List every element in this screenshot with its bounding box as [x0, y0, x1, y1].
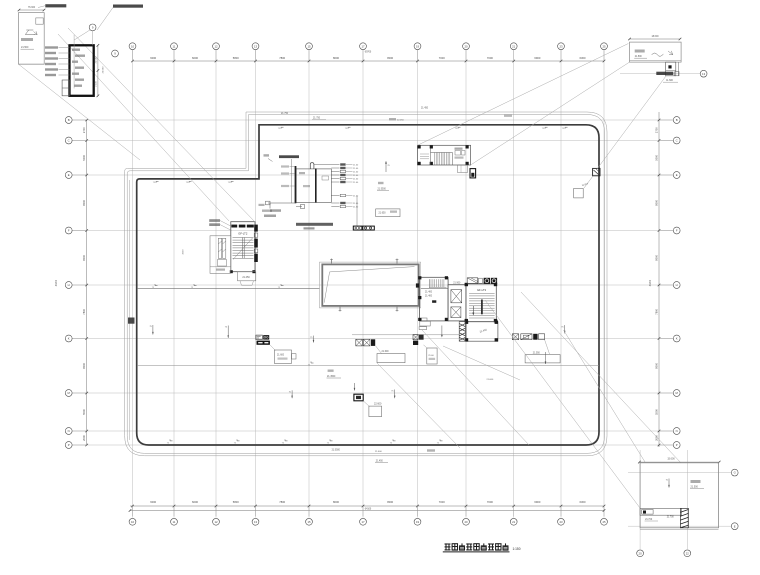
- svg-text:8000: 8000: [333, 56, 339, 60]
- bottom grid bubbles: [129, 518, 607, 525]
- svg-text:21.400: 21.400: [425, 292, 433, 294]
- svg-text:5000: 5000: [654, 154, 658, 160]
- svg-text:13: 13: [254, 44, 258, 48]
- svg-text:21.600: 21.600: [277, 355, 285, 357]
- svg-text:75: 75: [186, 182, 188, 184]
- svg-text:K: K: [676, 337, 678, 341]
- svg-text:21.60: 21.60: [353, 179, 359, 181]
- svg-text:E: E: [68, 173, 70, 177]
- column grid lines: [72, 50, 731, 549]
- svg-text:C: C: [676, 139, 678, 143]
- svg-text:13: 13: [254, 520, 258, 524]
- svg-text:25: 25: [602, 520, 606, 524]
- svg-text:5000: 5000: [82, 154, 86, 160]
- svg-text:6000: 6000: [150, 56, 156, 60]
- leader diagonals: [19, 28, 682, 508]
- svg-text:75: 75: [228, 182, 230, 184]
- svg-text:21.60: 21.60: [353, 165, 359, 167]
- svg-text:21.60: 21.60: [353, 175, 359, 177]
- gutter line mid: [352, 334, 459, 336]
- svg-text:21.60: 21.60: [353, 172, 359, 174]
- svg-text:75: 75: [390, 443, 392, 445]
- svg-text:7800: 7800: [654, 308, 658, 314]
- svg-text:4000: 4000: [183, 249, 185, 255]
- svg-text:21.450: 21.450: [242, 276, 250, 279]
- svg-text:8000: 8000: [654, 254, 658, 260]
- svg-text:8000: 8000: [654, 362, 658, 368]
- svg-text:B: B: [68, 118, 70, 122]
- hatched duct strip: [459, 322, 465, 342]
- svg-text:6900: 6900: [534, 500, 540, 504]
- stair core GF-LT2: [230, 222, 258, 274]
- svg-text:K: K: [68, 337, 70, 341]
- svg-text:21.700: 21.700: [667, 517, 675, 519]
- roof divide line upper: [137, 287, 448, 289]
- svg-text:20: 20: [639, 551, 643, 555]
- svg-text:21.60: 21.60: [353, 182, 359, 184]
- svg-text:6300: 6300: [580, 500, 586, 504]
- svg-text:H: H: [68, 283, 70, 287]
- svg-text:75: 75: [282, 443, 284, 445]
- svg-text:7800: 7800: [279, 56, 285, 60]
- svg-text:21.450: 21.450: [421, 108, 429, 110]
- hydrant group G2: [356, 339, 405, 362]
- svg-text:40200: 40200: [650, 279, 652, 286]
- svg-text:6900: 6900: [534, 56, 540, 60]
- top dimension line: [131, 50, 605, 62]
- svg-text:75: 75: [437, 443, 439, 445]
- svg-text:23: 23: [559, 44, 563, 48]
- booster pump boxes: [353, 226, 374, 230]
- svg-text:76.300: 76.300: [28, 7, 36, 9]
- TL detail: water tank room bold: [62, 45, 94, 96]
- svg-text:75: 75: [308, 365, 310, 367]
- TL leader labels: [45, 46, 70, 76]
- svg-text:6000: 6000: [150, 500, 156, 504]
- svg-text:21.60: 21.60: [353, 196, 359, 198]
- hydrant label box top: [376, 209, 400, 217]
- svg-text:75: 75: [455, 128, 457, 130]
- svg-text:7000: 7000: [439, 56, 445, 60]
- svg-text:21.60: 21.60: [353, 203, 359, 205]
- svg-text:G: G: [734, 471, 736, 475]
- svg-text:5800: 5800: [233, 500, 239, 504]
- svg-text:23.600: 23.600: [103, 66, 105, 73]
- svg-text:19: 19: [416, 44, 420, 48]
- svg-text:69700: 69700: [365, 52, 372, 54]
- svg-text:GF-LT2: GF-LT2: [238, 231, 248, 235]
- svg-text:8000: 8000: [82, 362, 86, 368]
- svg-text:21.600: 21.600: [382, 351, 390, 353]
- svg-text:12: 12: [214, 520, 218, 524]
- annex leader labels: [209, 219, 231, 230]
- hydrant group G1: [256, 335, 296, 363]
- svg-text:11: 11: [173, 520, 176, 524]
- svg-text:6300: 6300: [580, 56, 586, 60]
- right grid bubbles: [673, 117, 680, 449]
- svg-text:8000: 8000: [387, 500, 393, 504]
- svg-text:40200: 40200: [56, 279, 58, 286]
- svg-text:8000: 8000: [333, 500, 339, 504]
- vestibule boxes below core room: [419, 318, 443, 338]
- svg-text:22.600: 22.600: [374, 403, 382, 406]
- svg-text:20: 20: [464, 520, 468, 524]
- top grid bubbles: [112, 43, 608, 57]
- svg-text:5500: 5500: [82, 409, 86, 415]
- svg-text:15: 15: [307, 520, 311, 524]
- svg-text:11: 11: [173, 44, 176, 48]
- BR detail: fan room plan: [638, 458, 720, 530]
- hydrant group G3: [413, 335, 437, 365]
- svg-text:21: 21: [512, 44, 516, 48]
- svg-text:8000: 8000: [82, 254, 86, 260]
- svg-text:N: N: [676, 429, 678, 433]
- TR water tank box: [656, 62, 679, 82]
- svg-text:2700: 2700: [82, 127, 86, 133]
- svg-text:8000: 8000: [654, 199, 658, 205]
- svg-text:10: 10: [131, 520, 135, 524]
- right dimension line: [650, 112, 673, 447]
- svg-text:6000: 6000: [192, 500, 198, 504]
- svg-text:6000: 6000: [192, 56, 198, 60]
- svg-text:25: 25: [602, 44, 606, 48]
- hydrant group G4: [512, 334, 560, 363]
- roof divide line lower: [137, 364, 599, 366]
- svg-text:75: 75: [562, 128, 564, 130]
- L-level note top: [377, 182, 389, 191]
- svg-text:C: C: [68, 139, 70, 143]
- svg-text:12: 12: [214, 44, 218, 48]
- skylight: [320, 259, 421, 312]
- svg-text:15: 15: [307, 44, 311, 48]
- bottom dimension lines: [129, 500, 606, 518]
- vent shaft below stair E: [458, 165, 468, 173]
- left grid bubbles: [65, 117, 72, 449]
- svg-text:21.450: 21.450: [376, 460, 384, 462]
- roof outer edge thin lines: [125, 112, 607, 456]
- BR hatched duct: [680, 508, 688, 528]
- svg-text:F: F: [68, 229, 70, 233]
- svg-text:20: 20: [464, 44, 468, 48]
- svg-text:H: H: [676, 283, 678, 287]
- right wall hydrant: [574, 168, 600, 198]
- TR detail: fan room plan: [628, 36, 681, 62]
- svg-text:75: 75: [542, 128, 544, 130]
- svg-text:F: F: [676, 229, 678, 233]
- stair core GF-LT3: [465, 283, 498, 323]
- svg-text:21.60: 21.60: [353, 207, 359, 209]
- svg-text:18.600: 18.600: [651, 36, 659, 38]
- svg-text:21.900: 21.900: [453, 282, 461, 284]
- svg-text:75: 75: [167, 443, 169, 445]
- elevator shafts: [448, 282, 466, 321]
- svg-text:21: 21: [512, 520, 516, 524]
- svg-text:10: 10: [131, 44, 135, 48]
- svg-text:15.600: 15.600: [667, 458, 675, 461]
- svg-text:N: N: [68, 429, 70, 433]
- svg-text:75: 75: [191, 287, 193, 289]
- svg-text:75: 75: [327, 443, 329, 445]
- drain marks on walls: [152, 127, 568, 444]
- svg-text:P: P: [68, 443, 70, 447]
- svg-text:2.100: 2.100: [95, 80, 97, 86]
- svg-text:21.750: 21.750: [313, 118, 321, 120]
- svg-text:7000: 7000: [487, 56, 493, 60]
- TL detail: fan room plan: [18, 4, 143, 64]
- svg-text:21.4500: 21.4500: [327, 376, 336, 378]
- core top equipment strip: [467, 278, 497, 284]
- svg-text:75: 75: [152, 287, 154, 289]
- svg-text:21.60: 21.60: [353, 168, 359, 170]
- water tank piping detail: [259, 154, 391, 229]
- svg-text:22: 22: [686, 551, 690, 555]
- svg-text:1:150: 1:150: [513, 547, 521, 551]
- svg-text:5800: 5800: [233, 56, 239, 60]
- svg-text:21.500: 21.500: [95, 56, 97, 63]
- svg-text:75: 75: [345, 128, 347, 130]
- stair B exit vestibule: [238, 272, 256, 286]
- svg-text:17: 17: [361, 520, 365, 524]
- svg-text:21.700: 21.700: [645, 519, 653, 521]
- svg-text:21.600: 21.600: [375, 451, 382, 453]
- svg-text:2000: 2000: [82, 435, 86, 441]
- BR grid bubbles: [637, 469, 738, 556]
- svg-text:8000: 8000: [387, 56, 393, 60]
- svg-text:22.050: 22.050: [397, 120, 404, 122]
- left wall hydrant label: [128, 318, 135, 324]
- svg-text:P: P: [676, 443, 678, 447]
- svg-text:75: 75: [278, 287, 280, 289]
- svg-text:GF-LT3: GF-LT3: [477, 288, 487, 292]
- svg-text:64100: 64100: [365, 509, 372, 511]
- svg-text:23: 23: [559, 520, 563, 524]
- svg-text:B: B: [676, 118, 678, 122]
- svg-text:7000: 7000: [439, 500, 445, 504]
- svg-text:21.5500: 21.5500: [378, 188, 387, 190]
- slope arrows: [150, 325, 566, 398]
- roof parapet thick wall: [137, 125, 599, 445]
- svg-text:7000: 7000: [487, 500, 493, 504]
- drawing title: [443, 543, 521, 552]
- svg-text:21.600: 21.600: [487, 379, 494, 381]
- hydrant group G5: [354, 394, 382, 416]
- svg-text:11.600: 11.600: [666, 80, 674, 82]
- svg-text:21.60: 21.60: [428, 355, 434, 357]
- stair core top (machine room below TR detail): [418, 145, 471, 165]
- svg-text:8000: 8000: [82, 199, 86, 205]
- TL dimension bracket: [95, 44, 104, 97]
- core machine room left: [418, 276, 448, 321]
- TL grid bubble: [74, 24, 96, 88]
- svg-text:13: 13: [702, 72, 706, 76]
- svg-text:75: 75: [278, 128, 280, 130]
- svg-text:7800: 7800: [279, 500, 285, 504]
- roof hydrant box E: [470, 169, 476, 178]
- svg-text:17: 17: [361, 44, 365, 48]
- svg-text:E: E: [734, 524, 736, 528]
- svg-text:75: 75: [153, 182, 155, 184]
- svg-text:7800: 7800: [82, 308, 86, 314]
- svg-text:21.650: 21.650: [379, 213, 387, 215]
- svg-text:2700: 2700: [654, 127, 658, 133]
- svg-text:21.400: 21.400: [425, 295, 433, 297]
- svg-text:19: 19: [416, 520, 420, 524]
- fan room annex: [210, 236, 231, 273]
- svg-text:21.500: 21.500: [21, 46, 29, 49]
- svg-text:21.5500: 21.5500: [332, 449, 341, 451]
- TR grid bubble: [700, 70, 707, 77]
- svg-text:75: 75: [234, 443, 236, 445]
- svg-text:21.750: 21.750: [281, 113, 289, 115]
- svg-text:E: E: [676, 173, 678, 177]
- core lower room: [465, 321, 498, 342]
- left dimension line: [56, 119, 88, 447]
- roof level notes: [281, 108, 512, 463]
- svg-text:2000: 2000: [654, 435, 658, 441]
- BR tank room boxes: [640, 508, 682, 521]
- svg-text:21.500: 21.500: [691, 486, 699, 489]
- svg-text:5500: 5500: [654, 409, 658, 415]
- svg-text:21.500: 21.500: [635, 56, 643, 58]
- svg-text:21.550: 21.550: [533, 352, 541, 354]
